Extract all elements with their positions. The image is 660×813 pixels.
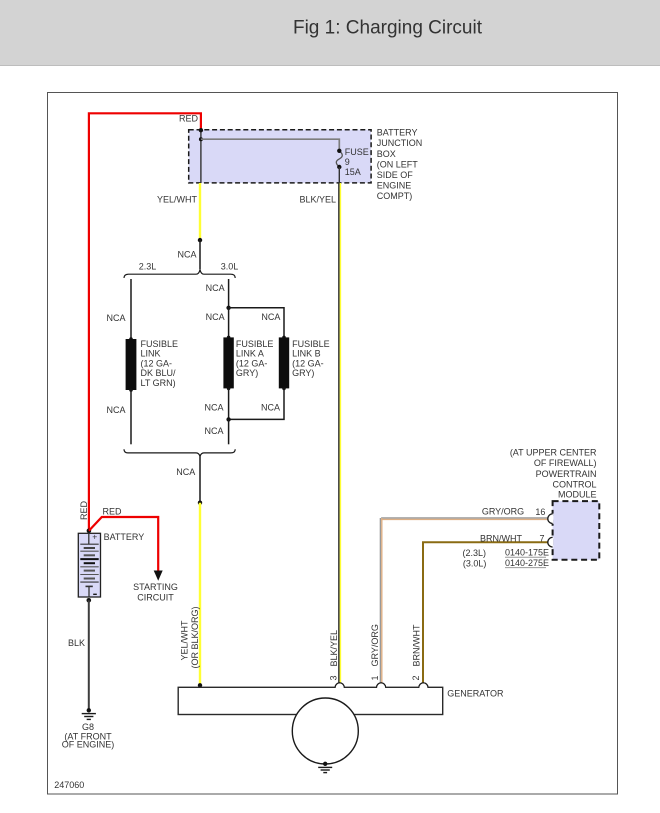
svg-text:JUNCTION: JUNCTION <box>377 138 423 148</box>
node split A/B <box>226 306 230 310</box>
powertrain control module box <box>553 501 600 560</box>
svg-text:NCA: NCA <box>106 405 125 415</box>
fusible link B <box>282 336 286 340</box>
svg-text:LT GRN): LT GRN) <box>141 378 176 388</box>
wire inside box vertical <box>200 130 202 183</box>
wire inner horizontal to fuse <box>201 139 339 151</box>
diagram border frame <box>48 93 618 795</box>
svg-text:FUSIBLE: FUSIBLE <box>236 339 274 349</box>
label starting circuit <box>133 582 178 603</box>
svg-text:9: 9 <box>345 157 350 167</box>
svg-text:GENERATOR: GENERATOR <box>447 689 504 699</box>
svg-text:RED: RED <box>79 500 89 520</box>
label YEL/WHT (OR BLK/ORG) rotated <box>180 606 201 668</box>
arrow to starting circuit <box>154 571 163 581</box>
svg-text:BATTERY: BATTERY <box>377 128 418 138</box>
svg-text:NCA: NCA <box>261 312 280 322</box>
svg-text:(OR BLK/ORG): (OR BLK/ORG) <box>190 606 200 668</box>
connector pin 2 arc <box>419 683 428 687</box>
brace split top <box>124 270 235 278</box>
svg-text:3.0L: 3.0L <box>221 262 239 272</box>
svg-text:BLK/YEL: BLK/YEL <box>299 195 336 205</box>
svg-text:BRN/WHT: BRN/WHT <box>412 624 422 666</box>
connector pin arcs redraw <box>335 683 344 687</box>
generator circle <box>292 698 358 764</box>
svg-text:BOX: BOX <box>377 149 396 159</box>
svg-text:(12 GA-: (12 GA- <box>236 358 268 368</box>
wire YEL/WHT long segment to generator <box>199 503 201 686</box>
svg-text:GRY/ORG: GRY/ORG <box>482 507 524 517</box>
svg-text:2: 2 <box>411 675 421 680</box>
ground G8 <box>82 714 96 720</box>
svg-text:RED: RED <box>179 114 199 124</box>
brace merge bottom <box>124 449 235 456</box>
svg-text:+: + <box>92 532 97 542</box>
svg-text:15A: 15A <box>345 167 361 177</box>
node battery negative <box>87 598 92 603</box>
svg-text:(2.3L): (2.3L) <box>462 548 486 558</box>
svg-text:OF FIREWALL): OF FIREWALL) <box>534 458 597 468</box>
label PCM location <box>510 447 597 499</box>
svg-text:MODULE: MODULE <box>558 489 597 499</box>
svg-text:NCA: NCA <box>204 426 223 436</box>
svg-text:NCA: NCA <box>176 467 195 477</box>
svg-text:NCA: NCA <box>206 312 225 322</box>
svg-text:YEL/WHT: YEL/WHT <box>157 195 198 205</box>
svg-text:(3.0L): (3.0L) <box>463 558 487 568</box>
wire NCA down to brace <box>199 240 201 269</box>
node box top junction <box>199 128 203 132</box>
wire BLK <box>88 600 90 710</box>
connector pin 1 arc <box>377 683 386 687</box>
wire below link B <box>229 388 284 419</box>
node NCA-to-yellow junction <box>198 501 202 505</box>
svg-text:BRN/WHT: BRN/WHT <box>480 533 522 543</box>
svg-text:GRY): GRY) <box>292 368 314 378</box>
svg-text:0140-275E: 0140-275E <box>505 558 549 568</box>
battery minus <box>93 593 97 595</box>
svg-text:Fig 1: Charging Circuit: Fig 1: Charging Circuit <box>293 18 483 39</box>
svg-text:POWERTRAIN: POWERTRAIN <box>536 469 597 479</box>
label battery junction box <box>377 128 423 202</box>
svg-text:NCA: NCA <box>106 313 125 323</box>
svg-text:FUSE: FUSE <box>345 147 369 157</box>
svg-text:STARTING: STARTING <box>133 582 178 592</box>
node generator ground <box>323 762 327 766</box>
svg-text:2.3L: 2.3L <box>139 262 157 272</box>
node inner junction <box>199 137 203 141</box>
svg-text:GRY/ORG: GRY/ORG <box>370 624 380 666</box>
svg-text:CIRCUIT: CIRCUIT <box>137 593 174 603</box>
svg-text:SIDE OF: SIDE OF <box>377 170 414 180</box>
svg-text:FUSIBLE: FUSIBLE <box>292 339 330 349</box>
wire YEL/WHT upper segment <box>199 183 201 239</box>
generator box <box>178 687 443 714</box>
svg-text:(12 GA-: (12 GA- <box>292 358 324 368</box>
fuse F9 15A <box>336 151 342 167</box>
svg-text:LINK A: LINK A <box>236 349 264 359</box>
connector notch white-outs PCM <box>551 514 554 524</box>
wire fuse to box bottom <box>338 167 340 183</box>
svg-text:LINK: LINK <box>141 349 161 359</box>
svg-text:BLK/YEL: BLK/YEL <box>329 630 339 667</box>
label G8 <box>62 722 115 750</box>
svg-text:YEL/WHT: YEL/WHT <box>180 620 190 661</box>
svg-text:BATTERY: BATTERY <box>104 532 145 542</box>
connector pin 16 arc <box>548 514 553 524</box>
wire BLK/YEL (two tone) <box>338 183 340 683</box>
connector pin 3 arc <box>335 683 344 687</box>
wire to link A <box>228 308 230 338</box>
svg-text:0140-175E: 0140-175E <box>505 548 549 558</box>
svg-text:RED: RED <box>103 507 123 517</box>
svg-text:(ON LEFT: (ON LEFT <box>377 159 419 169</box>
svg-text:LINK B: LINK B <box>292 349 321 359</box>
svg-text:OF ENGINE): OF ENGINE) <box>62 740 115 750</box>
ground generator <box>318 767 332 772</box>
svg-text:247060: 247060 <box>54 780 84 790</box>
title bar <box>0 0 660 66</box>
svg-text:(12 GA-: (12 GA- <box>141 358 173 368</box>
svg-text:16: 16 <box>535 507 545 517</box>
svg-text:CONTROL: CONTROL <box>552 480 596 490</box>
wire right branch upper <box>228 279 230 308</box>
wire merge down <box>228 419 230 444</box>
svg-text:COMPT): COMPT) <box>377 191 413 201</box>
battery <box>78 533 100 597</box>
svg-text:3: 3 <box>329 675 339 680</box>
wire RED branch to starting circuit <box>89 517 158 572</box>
node merge A/B <box>226 417 230 421</box>
node battery positive <box>87 529 92 534</box>
wire left branch lower <box>130 390 132 444</box>
svg-text:1: 1 <box>370 675 380 680</box>
battery junction box B1 <box>189 130 371 183</box>
wire below link A <box>228 388 230 419</box>
node yellow-to-NCA junction <box>198 238 202 242</box>
svg-text:NCA: NCA <box>177 250 196 260</box>
svg-text:NCA: NCA <box>204 403 223 413</box>
svg-text:7: 7 <box>539 533 544 543</box>
svg-text:BLK: BLK <box>68 638 85 648</box>
svg-text:FUSIBLE: FUSIBLE <box>141 339 179 349</box>
svg-text:NCA: NCA <box>261 403 280 413</box>
wire left branch upper <box>130 279 132 339</box>
svg-text:GRY): GRY) <box>236 368 258 378</box>
connector notch white-outs <box>336 686 344 688</box>
fusible link A <box>227 336 231 340</box>
svg-text:DK BLU/: DK BLU/ <box>141 368 177 378</box>
wire branch to B <box>229 308 284 338</box>
node generator yellow terminal <box>198 683 202 687</box>
wire BRN/WHT <box>423 542 548 682</box>
wire RED main (battery feed) <box>89 113 201 530</box>
svg-text:(AT UPPER CENTER: (AT UPPER CENTER <box>510 447 597 457</box>
label fuse <box>345 147 369 177</box>
svg-text:NCA: NCA <box>206 283 225 293</box>
wire below bottom brace <box>199 456 201 502</box>
fusible link (2.3L) <box>129 337 133 341</box>
wire GRY/ORG (two tone) <box>381 517 547 519</box>
svg-text:ENGINE: ENGINE <box>377 181 412 191</box>
connector pin 7 arc <box>548 537 553 547</box>
